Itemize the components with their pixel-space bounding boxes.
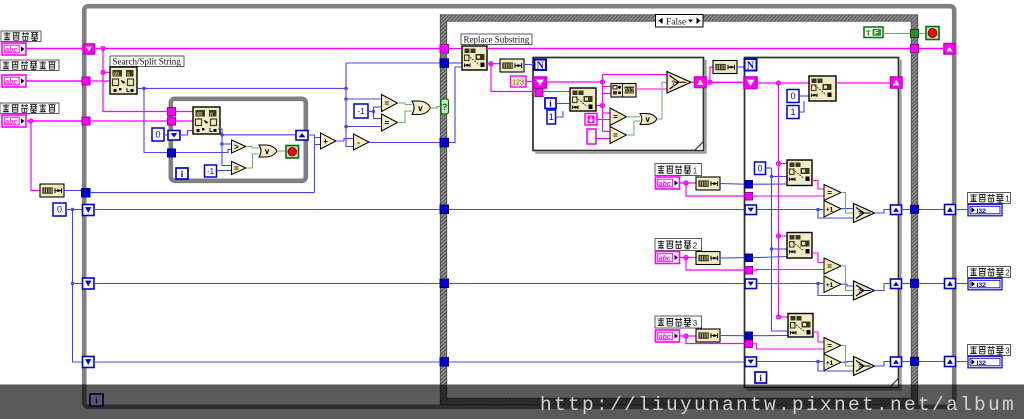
wire equal to select s b3 <box>841 346 854 367</box>
wire to inner SR right <box>222 134 296 136</box>
or function 2 <box>412 101 431 115</box>
wire to equal4 top <box>603 112 611 114</box>
svg-text:1: 1 <box>790 107 795 117</box>
shift register left count2 <box>83 278 95 289</box>
for loop 2 frame <box>745 58 901 390</box>
increment function block 2 <box>824 276 841 293</box>
shift register right (inner loop) <box>296 131 308 141</box>
wire to case tunnel 2 <box>902 283 911 285</box>
function search/replace block 1 <box>787 160 812 186</box>
wire length1 to tunnel <box>720 183 745 186</box>
select function 1 <box>667 72 691 94</box>
svg-text:0: 0 <box>57 205 62 215</box>
wire to case tunnel 1 <box>902 209 911 211</box>
wire replace3 to equal top <box>813 332 824 342</box>
case tunnel split count <box>440 59 449 68</box>
wire extract-end to inner loop <box>90 120 168 122</box>
svg-text:abc: abc <box>5 79 17 86</box>
wire source-string to SR <box>26 48 84 50</box>
junction string net <box>601 80 605 84</box>
shift register right count2 <box>891 279 902 289</box>
equal function (inner) <box>232 162 247 175</box>
wire to index array a <box>603 86 612 88</box>
junction vertical c <box>344 125 348 129</box>
wire split output down to inner loop <box>144 88 168 152</box>
equal function 4 <box>610 108 627 126</box>
or function 3 <box>640 114 657 125</box>
svg-text:=: = <box>613 131 618 140</box>
junction search1 <box>684 181 688 185</box>
wire enum to equal4 <box>597 119 610 121</box>
string control 來源字串 <box>2 43 26 55</box>
junction search3 <box>684 334 688 338</box>
select function block 2 <box>854 281 875 300</box>
shift register right (outer) count1 <box>945 205 956 215</box>
boolean constant TF <box>864 27 883 38</box>
equal function block 3 <box>824 338 841 354</box>
wire add to subtract <box>336 139 354 142</box>
junction offset b1 <box>770 175 773 178</box>
wire extract-start to search/split <box>90 80 110 82</box>
add function <box>321 133 337 149</box>
wire select1 out <box>691 81 695 83</box>
svg-text:T: T <box>866 28 871 37</box>
count terminal N (for loop 2) <box>745 59 757 71</box>
case selector label False <box>656 15 704 28</box>
tunnel length (blue) <box>82 189 91 198</box>
tunnel search string 3 <box>745 340 753 348</box>
wire or3 to select s <box>657 82 667 119</box>
wire replace out2 <box>487 63 500 65</box>
junction offset b2 <box>770 247 773 250</box>
shift register right count3 <box>891 357 902 367</box>
junction string b2 <box>777 234 781 238</box>
count terminal N (for loop 1) <box>535 60 547 72</box>
svg-text:∨: ∨ <box>417 104 423 113</box>
constant 1 (for loop 1) <box>547 110 556 124</box>
while loop (inner) border <box>171 99 306 181</box>
wire extract-start to tunnel <box>26 80 82 82</box>
junction string b1 <box>777 162 781 166</box>
function Replace Substring <box>462 46 487 70</box>
label search-string-3 搜尋字串3 <box>655 316 702 328</box>
svg-text:2: 2 <box>1005 268 1010 277</box>
tunnel extract-start <box>82 77 90 85</box>
case selector terminal ? <box>441 99 449 114</box>
junction working string <box>777 81 781 85</box>
wire i to replace2 <box>556 103 570 105</box>
wire tunnel2 to search/split 2 <box>176 120 194 122</box>
wire count1 left <box>94 209 440 211</box>
svg-text:=: = <box>384 99 389 108</box>
numeric indicator 出現次數2 <box>968 278 1002 290</box>
wire count2 inside case <box>449 283 746 285</box>
equal function block 1 <box>824 185 841 201</box>
wire length across <box>90 192 315 194</box>
svg-text:1: 1 <box>693 166 698 175</box>
wire select2 out <box>875 284 891 291</box>
svg-text:abc: abc <box>659 181 671 188</box>
wire SR to search/split 2 <box>180 131 193 136</box>
wire length3 to tunnel <box>720 335 745 337</box>
empty string constant <box>587 129 596 144</box>
wire for1 result to for2 <box>706 81 744 83</box>
wire up to select t <box>603 75 668 83</box>
wire length into replace substring <box>449 67 463 143</box>
svg-text:?: ? <box>672 81 676 87</box>
svg-text:i: i <box>759 374 762 384</box>
wire -1 out <box>368 111 374 113</box>
wire -1 vertical <box>373 107 375 119</box>
tunnel string into for loop 1 <box>535 89 543 97</box>
tunnel inner extract-end <box>168 117 176 125</box>
tunnel length1 <box>745 181 753 189</box>
constant -1 (selector) <box>354 104 368 118</box>
iteration terminal (for loop 2) <box>755 372 767 384</box>
numeric indicator 出現次數3 <box>968 356 1002 368</box>
svg-text:1: 1 <box>549 112 554 122</box>
wire count3 left <box>94 361 440 363</box>
wire count3 to increment <box>757 361 824 363</box>
watermark band <box>0 385 1024 419</box>
svg-text:abc: abc <box>659 256 671 263</box>
wire to add in2 <box>315 144 321 146</box>
numeric-to-string constant 123 <box>511 76 527 87</box>
wire count2 left <box>94 283 440 285</box>
wire to equal2 top <box>346 98 382 100</box>
junction vertical a <box>344 87 348 91</box>
svg-text:∨: ∨ <box>264 147 270 156</box>
case tunnel result string <box>911 45 919 53</box>
wire count2 to increment <box>757 283 824 285</box>
svg-text:False: False <box>666 17 686 27</box>
string control 搜尋字串2 <box>656 252 680 264</box>
wire count1 inside case <box>449 209 746 211</box>
svg-text:+1: +1 <box>826 282 834 289</box>
wire to indicator 2 <box>956 283 969 285</box>
case tunnel count3 <box>440 358 449 367</box>
tunnel length2 <box>745 254 753 262</box>
case tunnel source string <box>440 45 449 54</box>
string length (left) <box>40 184 64 197</box>
label occurrences-2 出現次數2 <box>968 267 1011 278</box>
wire or2 to case selector <box>431 107 442 109</box>
wire subtract to case <box>369 142 441 144</box>
string control 搜尋字串3 <box>656 330 680 342</box>
increment function block 3 <box>824 354 841 371</box>
wire split2 out down <box>218 129 232 166</box>
junction string b3 <box>777 315 781 319</box>
wire count2 to select f <box>818 284 854 296</box>
string control 搜尋字串1 <box>656 177 680 189</box>
iteration terminal (for loop 1) <box>545 98 556 110</box>
wire inner SR out to add <box>308 135 321 138</box>
wire select1 out <box>875 210 891 214</box>
tunnel extract-end <box>82 117 90 125</box>
wire equal to select s b1 <box>841 193 854 214</box>
svg-text:1: 1 <box>1005 194 1010 203</box>
wire to index array b <box>603 93 612 95</box>
wire offset to replace b2 <box>772 248 788 250</box>
shift register left count1 (for loop 2) <box>745 205 757 215</box>
or function (inner) <box>259 145 277 157</box>
svg-text:I32: I32 <box>977 282 987 289</box>
string length (search 1) <box>696 177 720 190</box>
loop condition terminal (outer) <box>926 27 939 40</box>
svg-text:?: ? <box>858 365 862 371</box>
constant -1 (inner) <box>205 165 217 177</box>
wire 0 down to SR3 <box>73 210 83 363</box>
junction replace out2 <box>489 62 493 66</box>
wire to indicator 1 <box>956 209 969 211</box>
equal function 3 <box>382 114 398 131</box>
label extract-start-string 擷取起點字串 <box>0 60 59 71</box>
wire length2 to replace <box>753 257 788 258</box>
tunnel inner source string <box>168 108 176 116</box>
wire to greater input <box>222 143 232 145</box>
string length 2 <box>500 59 524 72</box>
wire 0 to SR1 <box>66 209 83 211</box>
label occurrences-3 出現次數3 <box>968 345 1011 356</box>
svg-text:N: N <box>537 60 545 71</box>
label Search/Split String <box>110 56 184 67</box>
shift register left count2 (for loop 2) <box>745 279 757 289</box>
wire string to replace b1 <box>779 163 788 165</box>
shift register right (outer) count2 <box>945 279 956 289</box>
shift register left (inner loop) <box>168 131 180 141</box>
enum constant (down arrow) <box>585 114 597 126</box>
svg-text:=: = <box>613 113 618 122</box>
wire tunnel to replace2 <box>543 91 570 93</box>
select function block 1 <box>854 204 875 223</box>
wire source string down to inner loop <box>103 49 168 112</box>
wire greater to or <box>246 147 259 149</box>
wire replace2 to equal top <box>812 253 824 263</box>
svg-text:abc: abc <box>659 334 671 341</box>
svg-text:Replace Substring: Replace Substring <box>464 34 530 44</box>
svg-text:abc: abc <box>5 47 17 54</box>
loop condition terminal (inner) <box>286 146 299 159</box>
label source-string 來源字串 <box>1 31 41 42</box>
wire count1 to select f <box>818 210 854 219</box>
wire split offset across <box>137 87 346 89</box>
wire -1 to equal <box>217 170 232 172</box>
wire length1 to replace <box>753 183 788 185</box>
case tunnel subtract result <box>440 138 449 147</box>
shift register left count3 <box>83 357 95 368</box>
wire to indicator 3 <box>956 361 969 363</box>
function search/replace block 3 <box>788 314 813 338</box>
wire to search/split in1 <box>103 71 110 73</box>
svg-text:I32: I32 <box>977 360 987 367</box>
wire string to replace b2 <box>779 235 788 237</box>
svg-text:2: 2 <box>693 241 698 250</box>
iteration terminal (outer loop) <box>90 394 103 406</box>
wire 0 to inner SR <box>164 134 168 136</box>
function search/replace block 2 <box>787 233 812 259</box>
case tunnel count1 <box>440 205 449 214</box>
wire result to SR right <box>919 48 945 50</box>
wire 0 to SR2 <box>73 283 83 285</box>
shift register right (for loop 2) <box>891 77 903 88</box>
wire -1 to equal3 <box>374 118 382 120</box>
shift register right (for loop 1) <box>695 77 707 88</box>
svg-text:=: = <box>827 262 832 271</box>
svg-text:=: = <box>827 341 832 350</box>
junction into search/split <box>101 71 105 75</box>
shift register left (for loop 2) <box>744 77 757 89</box>
case tunnel count2 <box>440 279 449 288</box>
wire 1a to replace top <box>799 101 804 112</box>
wire count1 to increment <box>757 209 824 211</box>
svg-text:?: ? <box>858 212 862 218</box>
wire to case tunnel 3 <box>902 361 911 363</box>
svg-text:=: = <box>234 164 239 173</box>
tunnel search string 2 <box>745 267 753 275</box>
wire count3 inside case <box>449 361 746 363</box>
svg-text:-1: -1 <box>357 107 365 116</box>
equal function 2 <box>382 95 398 112</box>
case tunnel count2 out <box>911 279 919 287</box>
svg-text:=: = <box>384 118 389 127</box>
shift register right count1 <box>891 205 902 215</box>
wire to equal3 bottom <box>346 126 382 128</box>
wire source string across to case <box>95 48 441 50</box>
junction replace2 out <box>601 104 605 108</box>
wire equal3 to or2 <box>398 111 413 123</box>
wire select3 out <box>875 362 891 367</box>
wire search3 to equal bottom <box>753 344 825 349</box>
tunnel inner offset <box>168 149 176 157</box>
svg-text:+: + <box>323 137 328 146</box>
svg-text:+1: +1 <box>826 207 834 214</box>
string control 擷取終點字串 <box>2 115 26 127</box>
wire to case tunnel top <box>346 62 441 64</box>
svg-text:=: = <box>827 188 832 197</box>
wire vertical to length wire <box>314 138 316 193</box>
wire case to SR right 1 <box>919 209 945 211</box>
wire string vertical <box>602 82 604 132</box>
greater-than function <box>232 140 247 153</box>
wire search1 to length <box>680 182 696 184</box>
function Search/Split String (outer) <box>110 67 137 94</box>
junction count1 <box>816 208 820 212</box>
junction for1 out <box>708 80 712 84</box>
wire 0 vertical shared <box>772 168 789 331</box>
svg-text:-1: -1 <box>207 167 215 176</box>
svg-text:?: ? <box>442 102 448 112</box>
svg-text:0: 0 <box>155 130 160 140</box>
iteration terminal (inner loop) <box>176 168 188 180</box>
case tunnel boolean <box>911 30 919 38</box>
function replace top (for loop 2) <box>809 76 836 101</box>
shift register right (source string) <box>944 44 955 55</box>
wire 0a to replace top <box>799 95 809 97</box>
wire to equal5 top <box>603 131 611 133</box>
increment function block 1 <box>824 201 841 218</box>
constant 0 (counts init) <box>53 203 66 216</box>
wire equal5 to or3 <box>627 121 641 135</box>
svg-text:ab: ab <box>196 111 202 117</box>
svg-text:abc: abc <box>5 119 17 126</box>
function Search/Split String (inner) <box>193 107 220 134</box>
wire result string to case out <box>487 48 911 50</box>
svg-text:>: > <box>234 142 239 151</box>
wire search2 to tunnel <box>686 258 745 271</box>
wire length2 to tunnel <box>720 257 745 259</box>
subtract function <box>354 134 370 150</box>
tunnel search string 1 <box>745 193 753 201</box>
junction 0 split 2 <box>71 282 74 285</box>
wire empty to equal5 <box>596 138 610 140</box>
label extract-end-string 擷取終點字串 <box>0 103 59 114</box>
svg-text:3: 3 <box>1005 346 1010 355</box>
wire increment to select t <box>841 208 854 210</box>
svg-text:∨: ∨ <box>645 115 651 124</box>
wire search1 to equal bottom <box>753 195 825 197</box>
wire search3 to length <box>680 335 696 337</box>
junction count2 <box>816 282 820 286</box>
shift register right (outer) count3 <box>945 357 956 367</box>
svg-text:-: - <box>357 138 360 147</box>
index array icon <box>611 84 636 98</box>
numeric indicator 出現次數1 <box>968 204 1002 216</box>
wire search1 to tunnel <box>686 183 745 196</box>
wire extract-end to tunnel <box>26 120 82 122</box>
wire equal4 to or3 <box>627 116 641 118</box>
shift register left count1 <box>83 205 95 216</box>
junction count3 <box>816 360 820 364</box>
shift register left count3 (for loop 2) <box>745 357 757 367</box>
wire -1 to equal2 <box>374 106 382 108</box>
svg-text:I32: I32 <box>977 208 987 215</box>
label occurrences-1 出現次數1 <box>968 193 1011 204</box>
wire or to stop <box>277 150 286 152</box>
wire tunnel to search/split 2 <box>176 111 194 113</box>
wire string to replace b3 <box>779 316 789 318</box>
wire up to string length 3 <box>710 67 713 82</box>
case tunnel count3 out <box>911 357 919 365</box>
wire vertical split count <box>346 63 354 147</box>
wire length to tunnel <box>64 190 81 192</box>
for loop 1 frame <box>533 58 706 153</box>
wire replace1 to equal top <box>812 181 824 190</box>
wire 0 out <box>766 167 772 169</box>
wire SR out <box>547 81 603 83</box>
wire count3 to select f <box>818 362 854 372</box>
constant 0 (inner SR init) <box>152 128 164 141</box>
wire offset to replace b1 <box>772 176 788 178</box>
wire equal2 to or2 <box>398 103 413 105</box>
wire equal to select s b2 <box>841 266 854 291</box>
wire length3 to replace <box>753 335 789 337</box>
svg-text:0: 0 <box>790 91 795 101</box>
select function block 3 <box>854 357 875 376</box>
svg-text:N: N <box>747 60 755 71</box>
svg-text:i: i <box>549 100 552 110</box>
wire case to SR right 2 <box>919 283 945 285</box>
string length 3 <box>713 61 737 74</box>
constant 0 (top replace) <box>787 90 799 103</box>
equal function 5 <box>610 127 627 144</box>
wire SR2 out <box>757 82 809 84</box>
wire boolean to stop <box>919 33 927 35</box>
label search-string-1 搜尋字串1 <box>655 164 702 176</box>
wire search3 to tunnel <box>686 336 745 344</box>
wire down to for loop 1 tunnel <box>491 64 535 92</box>
wire into replace substring <box>449 48 463 50</box>
svg-text:+1: +1 <box>826 360 834 367</box>
